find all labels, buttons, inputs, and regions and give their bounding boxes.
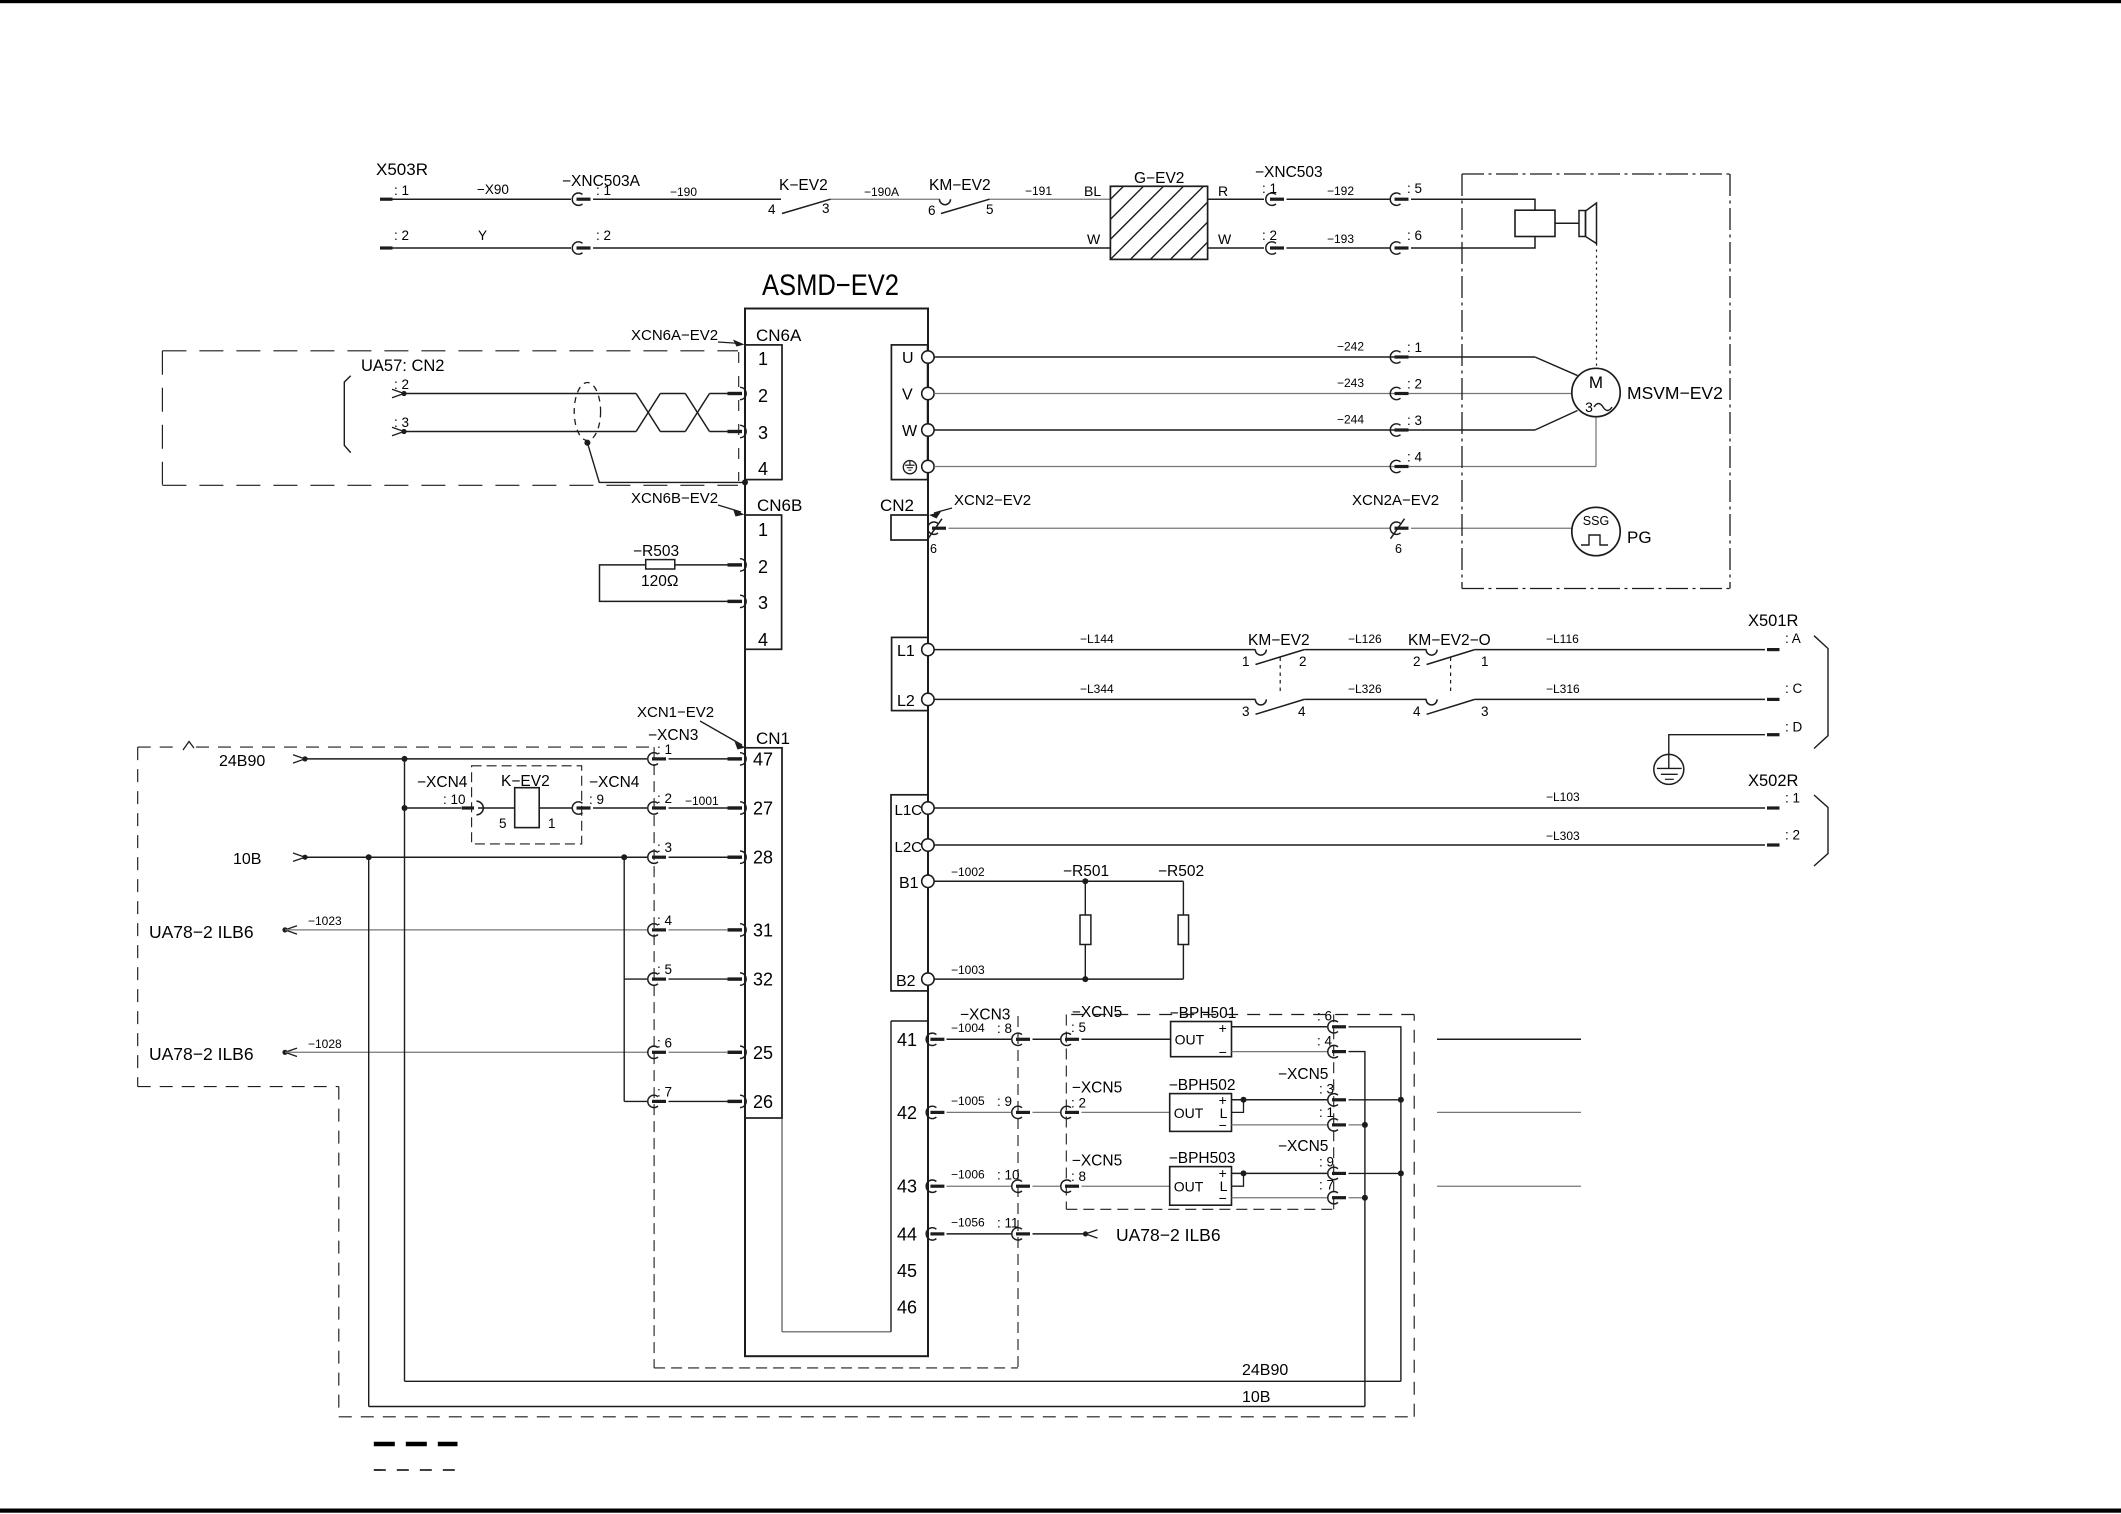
svg-text:−: − <box>1219 1044 1227 1060</box>
svg-text:PG: PG <box>1627 528 1652 547</box>
svg-text:: 2: : 2 <box>657 791 672 806</box>
svg-text:45: 45 <box>897 1261 917 1281</box>
svg-text:43: 43 <box>897 1177 917 1197</box>
svg-text:: 1: : 1 <box>1407 340 1422 355</box>
svg-text:: 10: : 10 <box>443 792 466 807</box>
svg-text:1: 1 <box>758 520 768 540</box>
svg-text:: 10: : 10 <box>997 1168 1020 1183</box>
svg-text:3: 3 <box>1481 704 1489 719</box>
svg-text:K−EV2: K−EV2 <box>501 773 550 790</box>
svg-text:V: V <box>902 387 913 404</box>
svg-text:3: 3 <box>758 423 768 443</box>
svg-text:−XCN5: −XCN5 <box>1278 1066 1328 1083</box>
svg-text:: 1: : 1 <box>596 183 611 198</box>
svg-text:: 2: : 2 <box>1071 1095 1086 1110</box>
svg-text:: 9: : 9 <box>589 792 604 807</box>
svg-text:: 4: : 4 <box>1317 1034 1333 1049</box>
svg-text:: 1: : 1 <box>394 183 409 198</box>
svg-text:: 3: : 3 <box>657 840 672 855</box>
svg-text:1: 1 <box>1481 654 1489 669</box>
svg-text:−1023: −1023 <box>308 914 342 928</box>
svg-text:: 2: : 2 <box>596 228 611 243</box>
svg-text:−193: −193 <box>1327 232 1354 246</box>
svg-text:: D: : D <box>1785 720 1803 735</box>
svg-text:−XCN5: −XCN5 <box>1072 1004 1122 1021</box>
svg-text:W: W <box>1087 231 1101 247</box>
svg-text:L1: L1 <box>897 643 915 660</box>
svg-text:UA78−2 ILB6: UA78−2 ILB6 <box>149 1044 254 1064</box>
svg-text:−: − <box>1219 1190 1227 1206</box>
svg-text:R: R <box>1218 183 1228 199</box>
svg-text:5: 5 <box>986 202 994 217</box>
svg-text:U: U <box>902 350 914 367</box>
svg-text:24B90: 24B90 <box>1242 1362 1288 1379</box>
svg-text:: 6: : 6 <box>657 1035 672 1050</box>
svg-text:B1: B1 <box>899 875 919 892</box>
svg-text:: 6: : 6 <box>1407 228 1422 243</box>
svg-text:X501R: X501R <box>1748 612 1799 630</box>
svg-text:−XCN5: −XCN5 <box>1278 1138 1328 1155</box>
svg-text:W: W <box>902 423 918 440</box>
svg-text:: 4: : 4 <box>1407 450 1423 465</box>
svg-text:: 2: : 2 <box>1785 828 1800 843</box>
svg-text:: 5: : 5 <box>657 962 672 977</box>
svg-text:−L344: −L344 <box>1080 682 1114 696</box>
svg-text:−190: −190 <box>670 185 697 199</box>
svg-text:−244: −244 <box>1337 413 1364 427</box>
svg-text:KM−EV2: KM−EV2 <box>1248 632 1310 649</box>
svg-text:: 11: : 11 <box>997 1215 1019 1230</box>
svg-text:B2: B2 <box>896 973 916 990</box>
svg-text:XCN1−EV2: XCN1−EV2 <box>637 704 714 721</box>
svg-text:: 3: : 3 <box>394 415 409 430</box>
svg-text:4: 4 <box>758 459 768 479</box>
svg-text:10B: 10B <box>233 851 261 868</box>
svg-text:3: 3 <box>1242 704 1250 719</box>
svg-text:−L126: −L126 <box>1348 632 1382 646</box>
svg-text:1: 1 <box>548 816 556 831</box>
svg-text:2: 2 <box>1299 654 1307 669</box>
svg-text:: 5: : 5 <box>1071 1020 1086 1035</box>
svg-text:Y: Y <box>478 228 487 243</box>
svg-text:−192: −192 <box>1327 184 1354 198</box>
svg-text:K−EV2: K−EV2 <box>779 177 828 194</box>
svg-text:2: 2 <box>1413 654 1421 669</box>
svg-text:L1C: L1C <box>895 802 923 819</box>
svg-text:BL: BL <box>1084 183 1101 199</box>
svg-text:: 1: : 1 <box>1262 181 1277 196</box>
svg-text:ASMD−EV2: ASMD−EV2 <box>762 269 899 302</box>
svg-text:−L326: −L326 <box>1348 682 1382 696</box>
svg-text:UA57: CN2: UA57: CN2 <box>361 357 444 375</box>
svg-text:3: 3 <box>758 593 768 613</box>
svg-text:−XCN5: −XCN5 <box>1072 1080 1122 1097</box>
svg-text:+: + <box>1219 1020 1227 1036</box>
svg-text:−XCN5: −XCN5 <box>1072 1153 1122 1170</box>
svg-text:−L303: −L303 <box>1546 829 1580 843</box>
svg-text:−191: −191 <box>1025 184 1052 198</box>
svg-text:−: − <box>1219 1117 1227 1133</box>
svg-text:: 6: : 6 <box>1317 1009 1332 1024</box>
svg-text:: A: : A <box>1785 631 1801 646</box>
svg-text:−1006: −1006 <box>951 1168 985 1182</box>
svg-text:: 7: : 7 <box>1319 1178 1334 1193</box>
svg-text:OUT: OUT <box>1174 1105 1204 1121</box>
svg-text:−243: −243 <box>1337 376 1364 390</box>
svg-text:UA78−2 ILB6: UA78−2 ILB6 <box>149 922 254 942</box>
svg-text:G−EV2: G−EV2 <box>1134 170 1184 187</box>
svg-text:47: 47 <box>753 749 773 769</box>
svg-text:MSVM−EV2: MSVM−EV2 <box>1627 383 1723 403</box>
svg-text:OUT: OUT <box>1174 1178 1204 1194</box>
svg-text:: 1: : 1 <box>657 742 672 757</box>
svg-text:−XCN4: −XCN4 <box>589 774 640 791</box>
svg-text:: 2: : 2 <box>1262 228 1277 243</box>
svg-text:28: 28 <box>753 848 773 868</box>
svg-text:10B: 10B <box>1242 1389 1270 1406</box>
svg-text:1: 1 <box>1242 654 1250 669</box>
svg-text:120Ω: 120Ω <box>641 573 678 590</box>
svg-text:XCN2−EV2: XCN2−EV2 <box>954 492 1031 509</box>
svg-text:−1003: −1003 <box>951 963 985 977</box>
svg-text:X502R: X502R <box>1748 772 1799 790</box>
svg-text:−R501: −R501 <box>1063 863 1109 880</box>
svg-text:6: 6 <box>930 542 937 556</box>
svg-text:−X90: −X90 <box>477 182 509 197</box>
svg-text:: 3: : 3 <box>1319 1082 1334 1097</box>
svg-text:41: 41 <box>897 1030 917 1050</box>
svg-text:: 7: : 7 <box>657 1084 672 1099</box>
svg-text:46: 46 <box>897 1298 917 1318</box>
svg-text:: 8: : 8 <box>1071 1169 1086 1184</box>
svg-text:−R502: −R502 <box>1158 863 1204 880</box>
svg-text:−1002: −1002 <box>951 865 985 879</box>
svg-text:: 1: : 1 <box>1785 791 1800 806</box>
svg-text:6: 6 <box>928 203 936 218</box>
svg-text:1: 1 <box>758 349 768 369</box>
svg-text:−1004: −1004 <box>951 1021 985 1035</box>
svg-text:−XCN4: −XCN4 <box>417 774 468 791</box>
svg-text:: 2: : 2 <box>394 228 409 243</box>
svg-text:W: W <box>1218 231 1232 247</box>
svg-text:27: 27 <box>753 799 773 819</box>
svg-text:XCN6A−EV2: XCN6A−EV2 <box>631 327 718 344</box>
svg-text:26: 26 <box>753 1092 773 1112</box>
svg-text:−1056: −1056 <box>951 1215 985 1229</box>
svg-text:3: 3 <box>1585 399 1593 415</box>
svg-text:4: 4 <box>758 630 768 650</box>
svg-text:CN2: CN2 <box>880 496 914 515</box>
svg-text:44: 44 <box>897 1224 917 1244</box>
svg-text:KM−EV2: KM−EV2 <box>929 177 991 194</box>
svg-text:M: M <box>1589 373 1603 392</box>
svg-text:KM−EV2−O: KM−EV2−O <box>1408 632 1491 649</box>
svg-text:XCN2A−EV2: XCN2A−EV2 <box>1352 492 1439 509</box>
svg-text:25: 25 <box>753 1043 773 1063</box>
svg-text:: C: : C <box>1785 681 1803 696</box>
svg-text:−L116: −L116 <box>1546 632 1579 646</box>
svg-text:5: 5 <box>499 816 507 831</box>
svg-text:: 9: : 9 <box>1319 1155 1334 1170</box>
svg-text:4: 4 <box>1298 704 1306 719</box>
svg-text:CN1: CN1 <box>756 729 790 748</box>
svg-text:: 8: : 8 <box>997 1021 1012 1036</box>
svg-text:L2: L2 <box>897 693 915 710</box>
svg-text:2: 2 <box>758 386 768 406</box>
svg-text:: 2: : 2 <box>394 377 409 392</box>
svg-text:6: 6 <box>1395 542 1402 556</box>
svg-text:−1001: −1001 <box>685 794 719 808</box>
svg-text:CN6A: CN6A <box>756 326 802 345</box>
svg-text:4: 4 <box>1413 704 1421 719</box>
svg-text:: 5: : 5 <box>1407 181 1422 196</box>
svg-text:−1005: −1005 <box>951 1094 985 1108</box>
svg-text:L2C: L2C <box>895 839 923 856</box>
svg-text:: 3: : 3 <box>1407 413 1422 428</box>
svg-text:3: 3 <box>822 201 830 216</box>
svg-text:−L144: −L144 <box>1080 632 1114 646</box>
svg-text:24B90: 24B90 <box>219 753 265 770</box>
svg-text:−R503: −R503 <box>633 543 679 560</box>
svg-text:4: 4 <box>768 202 776 217</box>
svg-text:CN6B: CN6B <box>757 496 802 515</box>
svg-text:−L316: −L316 <box>1546 682 1580 696</box>
svg-text:: 9: : 9 <box>997 1094 1012 1109</box>
svg-text:−L103: −L103 <box>1546 790 1580 804</box>
svg-text:: 1: : 1 <box>1319 1105 1334 1120</box>
svg-text:−190A: −190A <box>864 185 899 199</box>
svg-text:−1028: −1028 <box>308 1037 342 1051</box>
svg-text:OUT: OUT <box>1175 1032 1205 1048</box>
svg-text:XCN6B−EV2: XCN6B−EV2 <box>631 490 718 507</box>
svg-text:: 4: : 4 <box>657 913 673 928</box>
svg-text:−XNC503: −XNC503 <box>1255 164 1323 181</box>
svg-text:: 2: : 2 <box>1407 377 1422 392</box>
svg-text:X503R: X503R <box>376 160 428 179</box>
svg-text:32: 32 <box>753 970 773 990</box>
svg-text:42: 42 <box>897 1103 917 1123</box>
svg-text:SSG: SSG <box>1583 514 1609 528</box>
svg-text:−XCN3: −XCN3 <box>648 727 698 744</box>
svg-text:−242: −242 <box>1337 340 1364 354</box>
svg-text:UA78−2 ILB6: UA78−2 ILB6 <box>1116 1225 1221 1245</box>
svg-text:31: 31 <box>753 920 773 940</box>
svg-text:2: 2 <box>758 557 768 577</box>
